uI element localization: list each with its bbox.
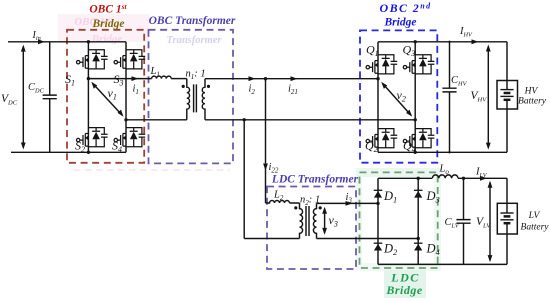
node: LDC right leg top [417, 177, 420, 180]
svg-text:LDC Transformer: LDC Transformer [271, 174, 359, 186]
wire: T1 secondary bottom to bridge2 [205, 119, 415, 121]
battery HV cells [500, 42, 513, 153]
transistor Q4 [403, 129, 434, 148]
node: C_LV top junction [462, 177, 465, 180]
node: D3 D4 midpoint [417, 237, 420, 240]
wire: HV top rail with I_HV arrow [378, 39, 507, 44]
battery HV box [497, 81, 518, 110]
node: D1 D2 midpoint [376, 202, 379, 205]
wire: bottom rail input side [11, 151, 126, 153]
node: bridge2 left midpoint [376, 77, 379, 80]
svg-text:n1: 1: n1: 1 [186, 69, 206, 82]
transistor S3 [114, 50, 145, 69]
battery LV cells [500, 178, 513, 264]
wire: LDC top rail left part [378, 177, 432, 179]
transformer T2 secondary winding [313, 203, 316, 238]
wire: bridge1 output to L1 with i1 arrow [88, 76, 151, 81]
svg-text:Bridge: Bridge [384, 17, 417, 29]
node: T1 primary polarity dot [182, 85, 185, 88]
arrow: V_HV measure double arrow [486, 45, 491, 150]
svg-text:n2: 1: n2: 1 [300, 195, 320, 208]
wire: i22 drop to LDC with arrow [263, 79, 268, 203]
diode D2 [374, 243, 383, 250]
transformer T2 core [306, 206, 309, 236]
wire: L1 to transformer primary [171, 78, 187, 80]
wire: T1 secondary top with i2 and i21 arrows [205, 76, 378, 81]
node: bridge2 right leg top [414, 40, 417, 43]
battery LV box [497, 203, 517, 234]
transistor Q2 [366, 129, 397, 148]
svg-text:OBC Transformer: OBC Transformer [149, 15, 236, 27]
wire: HV bottom rail [378, 151, 507, 153]
wire: bridge1 left leg [87, 42, 89, 153]
node: bridge1 left leg bottom [87, 151, 90, 154]
node: T1 secondary polarity dot [207, 85, 210, 88]
svg-text:Battery: Battery [518, 97, 547, 107]
arrow: v2 double diagonal arrow [381, 82, 412, 117]
wire: LDC top rail right part with I_LV arrow [458, 176, 507, 181]
arrow: V_LV measure double arrow [488, 181, 493, 262]
svg-text:Bridge: Bridge [92, 18, 125, 30]
node: bottom wire split junction [243, 118, 246, 121]
wire: T2 primary bottom return [244, 238, 299, 240]
inductor L_o [432, 175, 458, 178]
wire: bridge2 left leg [377, 42, 379, 153]
diode D1 [374, 190, 383, 197]
LDC bridge dashed box [360, 172, 438, 268]
arrow: v1 double diagonal arrow [91, 82, 123, 117]
node: bridge2 right leg bottom [414, 151, 417, 154]
svg-text:Transformer: Transformer [166, 35, 222, 46]
wire: bridge2 right leg [414, 42, 416, 153]
node: bridge2 right midpoint [414, 118, 417, 121]
OBC 1st bridge dashed box [67, 30, 144, 163]
transistor S4 [114, 128, 145, 147]
node: bridge1 left midpoint [87, 77, 90, 80]
transistor Q1 [366, 55, 397, 74]
node: bridge1 right midpoint [124, 118, 127, 121]
diode D4 [414, 243, 423, 250]
node: C_HV top junction [448, 41, 450, 43]
transformer T2 primary winding [300, 203, 303, 239]
transformer T1 secondary winding [202, 79, 205, 120]
svg-text:Bridge: Bridge [385, 283, 423, 297]
wire: T1 primary bottom return to bridge1 [126, 119, 187, 121]
wire: bridge1 right leg [125, 42, 127, 153]
svg-text:HV: HV [524, 87, 539, 97]
wire: LDC bottom rail [378, 263, 507, 265]
OBC 2nd bridge dashed box [360, 30, 437, 162]
svg-text:Battery: Battery [521, 223, 550, 233]
transistor Q3 [403, 55, 434, 74]
wire: return drop to LDC primary bottom [243, 120, 245, 239]
capacitor C_DC [43, 42, 57, 153]
arrow: v3 double arrow [322, 207, 327, 235]
wire: T2 secondary bottom to D3 D4 midpoint [317, 238, 419, 240]
node: i2 split junction [264, 77, 267, 80]
transformer T1 core [194, 84, 197, 112]
inductor L2 entry and coil [266, 201, 300, 203]
ghost highlight strip along green LDC Bridge box [356, 168, 442, 177]
diode D3 [414, 190, 423, 197]
transistor S2 [77, 128, 108, 147]
svg-text:Bridge: Bridge [91, 33, 123, 45]
svg-text:LV: LV [528, 211, 541, 221]
wire: LDC bridge right leg [417, 178, 419, 264]
capacitor C_LV [456, 178, 470, 264]
capacitor C_HV [442, 42, 456, 153]
ghost pink dashes under red box bottom [74, 169, 230, 171]
ghost highlight behind OBC 1st Bridge titles [58, 14, 149, 42]
arrow: input current I_in [38, 39, 45, 44]
wire: T2 secondary top to LDC bridge with i3 arrow [317, 201, 379, 206]
wire: LDC bridge left leg [377, 178, 379, 264]
arrow: V_DC measure double arrow [21, 45, 26, 150]
node: T2 secondary polarity dot [319, 206, 322, 209]
wire: top rail input side [8, 41, 126, 43]
transistor S1 [77, 50, 108, 69]
node: T2 primary polarity dot [294, 206, 297, 209]
node: C_HV bottom junction [448, 151, 450, 153]
LDC transformer dashed box [267, 187, 356, 270]
OBC transformer dashed box [149, 30, 234, 164]
transformer T1 primary winding [187, 79, 190, 120]
node: bridge1 left leg top [87, 40, 90, 43]
inductor L1 [152, 76, 172, 78]
